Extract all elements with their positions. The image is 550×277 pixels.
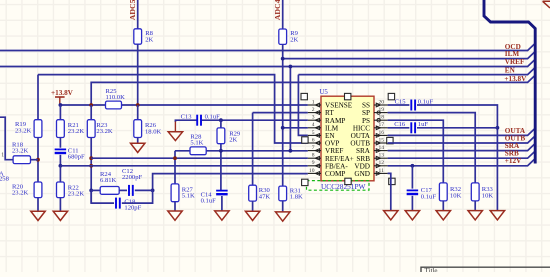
wire RAMP row bbox=[202, 119, 308, 121]
wire OUTA net bbox=[388, 128, 535, 135]
wire PS row bbox=[388, 120, 444, 183]
pin 5 EN bbox=[308, 130, 336, 140]
svg-text:4: 4 bbox=[312, 122, 315, 128]
wire C15 to HICC column bbox=[417, 105, 497, 211]
label R29 2K bbox=[229, 130, 241, 143]
pin 12 VDD bbox=[354, 160, 387, 170]
wire R9/ILM column down to pin 4 and R31 bbox=[282, 44, 284, 186]
wire OCD net bbox=[0, 44, 535, 51]
svg-text:20: 20 bbox=[379, 99, 385, 105]
wire RT row bbox=[253, 112, 308, 114]
svg-text:Title: Title bbox=[425, 267, 438, 272]
label C11 680pF bbox=[68, 147, 85, 160]
wire ILM net bbox=[283, 52, 535, 59]
bus vertical right edge bbox=[484, 0, 535, 164]
capacitor C15 bbox=[411, 100, 415, 111]
svg-text:GND: GND bbox=[354, 170, 370, 178]
resistor R23 bbox=[87, 120, 95, 138]
svg-text:C15: C15 bbox=[395, 98, 407, 105]
pin 10 COMP bbox=[308, 168, 346, 178]
ground under R32 bbox=[436, 211, 450, 220]
wire C18 loop bbox=[91, 190, 114, 203]
svg-text:+13.8V: +13.8V bbox=[504, 75, 527, 83]
wire +13.8V rail bbox=[91, 75, 535, 105]
label C13 0.1uF bbox=[181, 114, 221, 121]
resistor R21 bbox=[57, 120, 65, 138]
label C12 2200pF bbox=[122, 168, 142, 181]
junction ADC5/R26 on VSENSE row bbox=[136, 103, 140, 107]
svg-text:10K: 10K bbox=[482, 192, 494, 199]
junction VREF pin row bbox=[289, 149, 293, 153]
capacitor C12 bbox=[129, 185, 133, 196]
label C17 0.1uF bbox=[421, 187, 437, 200]
label C14 0.1uF bbox=[201, 191, 217, 204]
junction left end of R24 row bbox=[89, 189, 93, 193]
wire R24/C12 row bbox=[91, 189, 100, 191]
pin 4 ILM bbox=[308, 122, 339, 132]
pin 17 HICC bbox=[353, 122, 388, 132]
svg-text:UCC28251PW: UCC28251PW bbox=[321, 183, 366, 191]
svg-text:10: 10 bbox=[309, 168, 315, 174]
wire R26 to ground bbox=[137, 138, 139, 144]
svg-text:2K: 2K bbox=[290, 36, 298, 43]
wire RT column to R30 bbox=[252, 113, 254, 186]
svg-text:C16: C16 bbox=[394, 121, 406, 128]
wire R18 junction segment bbox=[31, 159, 39, 161]
svg-text:1: 1 bbox=[312, 99, 315, 105]
wire R29 column bbox=[220, 120, 222, 190]
wire +12V to C17 bbox=[411, 166, 413, 189]
resistor R32 bbox=[439, 183, 447, 201]
wire R23 down to compensation network bbox=[90, 138, 92, 204]
resistor R27 bbox=[171, 184, 179, 202]
junction ILM pin 4 bbox=[281, 126, 285, 130]
ground under GND pin bbox=[384, 211, 398, 220]
label R8 2K bbox=[145, 30, 153, 43]
svg-text:0.1uF: 0.1uF bbox=[421, 193, 437, 200]
wire SS row to C15 bbox=[388, 104, 410, 106]
svg-text:16: 16 bbox=[379, 130, 385, 136]
resistor R18 bbox=[13, 156, 30, 164]
svg-text:5.1K: 5.1K bbox=[190, 140, 203, 147]
pin 6 OVP bbox=[308, 137, 340, 147]
pin 1 VSENSE bbox=[308, 99, 353, 109]
label R20 23.2K bbox=[12, 183, 29, 196]
junction comp network right bbox=[151, 189, 155, 193]
ground under R26 bbox=[131, 143, 145, 152]
label C15 0.1uF bbox=[395, 98, 434, 105]
capacitor C13 bbox=[197, 115, 201, 126]
label R23 23.2K bbox=[96, 122, 113, 135]
ground under R31 bbox=[276, 212, 290, 221]
wire ADC4 column bbox=[282, 0, 284, 29]
label C18 120pF bbox=[124, 198, 141, 211]
label R25 110.0K bbox=[106, 88, 126, 101]
label R33 10K bbox=[482, 186, 494, 199]
junction ILM row start bbox=[281, 57, 285, 61]
svg-text:14: 14 bbox=[379, 145, 385, 151]
svg-text:C13: C13 bbox=[181, 114, 193, 121]
svg-text:23.2K: 23.2K bbox=[68, 191, 85, 198]
svg-text:6.81K: 6.81K bbox=[100, 177, 117, 184]
svg-text:2200pF: 2200pF bbox=[122, 174, 142, 181]
wire +12V net bbox=[388, 159, 535, 166]
wire GND pin to ground bbox=[388, 173, 391, 210]
svg-text:47K: 47K bbox=[259, 193, 271, 200]
ground under R22 bbox=[53, 211, 67, 220]
svg-text:120pF: 120pF bbox=[124, 205, 141, 212]
wire C13 to ground bbox=[175, 120, 196, 122]
svg-text:ADC5: ADC5 bbox=[128, 0, 137, 20]
junction R23 on FB/EA- row bbox=[89, 164, 93, 168]
marker square near pin 6 bbox=[302, 137, 308, 143]
svg-text:+12V: +12V bbox=[505, 157, 522, 165]
ground under HICC column bbox=[490, 211, 504, 220]
wire EN net left segment to OVP pin bbox=[38, 75, 308, 143]
label R24 6.81K bbox=[100, 171, 117, 184]
ground under R30 bbox=[245, 211, 259, 220]
svg-text:23.2K: 23.2K bbox=[68, 128, 85, 135]
resistor R19 bbox=[15, 120, 42, 138]
pin 20 SS bbox=[362, 99, 388, 109]
svg-text:2K: 2K bbox=[229, 137, 237, 144]
wire VREF net bbox=[0, 60, 535, 67]
svg-text:3: 3 bbox=[312, 115, 315, 121]
resistor R8 bbox=[134, 29, 142, 44]
svg-text:0.1uF: 0.1uF bbox=[205, 114, 221, 121]
wire EN net right segment bbox=[298, 68, 535, 75]
label R31 1.8K bbox=[290, 188, 303, 201]
marker square bottom of U5 bbox=[345, 178, 351, 184]
label R30 47K bbox=[259, 187, 271, 200]
ground under C17 bbox=[405, 211, 419, 220]
marker square near pin 1 bbox=[301, 93, 307, 99]
svg-text:23.2K: 23.2K bbox=[12, 190, 29, 197]
svg-text:13: 13 bbox=[379, 153, 385, 159]
wire C18 loop right bbox=[122, 190, 153, 203]
pin 15 OUTB bbox=[350, 137, 387, 147]
junction C11/R22 on FB row bbox=[59, 164, 63, 168]
resistor R24 bbox=[100, 187, 119, 195]
resistor R30 bbox=[249, 185, 257, 201]
label R9 2K bbox=[290, 30, 298, 43]
wire EN vertical to EN pin 5 bbox=[298, 75, 307, 136]
junction R18-R19-R20 bbox=[36, 158, 40, 162]
junction HICC/C15 column bbox=[496, 126, 500, 130]
resistor R31 bbox=[279, 186, 287, 201]
label R27 5.1K bbox=[182, 187, 195, 200]
svg-text:23.2K: 23.2K bbox=[15, 127, 32, 134]
svg-text:1.8K: 1.8K bbox=[290, 194, 303, 201]
svg-text:23.2K: 23.2K bbox=[12, 148, 29, 155]
label R26 18.0K bbox=[145, 122, 162, 135]
power symbol fragment top right corner bbox=[543, 1, 550, 8]
wire OUTB net bbox=[388, 136, 535, 143]
wire VREF/R28 row bbox=[175, 67, 290, 151]
label R22 23.2K bbox=[68, 184, 85, 197]
pin 9 FB/EA- bbox=[308, 160, 349, 170]
wire R22 to ground bbox=[59, 198, 61, 212]
wire VREF pin 7 segment bbox=[290, 150, 307, 152]
label UCC28251PW with selection box bbox=[307, 181, 370, 191]
wire R21 to C11 bbox=[59, 138, 61, 148]
wire R27 to ground bbox=[174, 202, 176, 211]
svg-text:23.2K: 23.2K bbox=[96, 128, 113, 135]
wire op-amp output to R18 bbox=[0, 117, 13, 160]
marker square near pin 20 bbox=[388, 93, 394, 99]
junction R27 on REF/EA+ row bbox=[173, 156, 177, 160]
label R32 10K bbox=[450, 186, 462, 199]
capacitor C16 bbox=[411, 122, 415, 133]
label R18 23.2K bbox=[12, 141, 29, 154]
junction VREF column top bbox=[289, 65, 293, 69]
resistor R20 bbox=[34, 182, 42, 198]
pin 18 PS bbox=[362, 115, 388, 125]
wire ILM pin 4 row bbox=[283, 127, 308, 129]
marker square near pin 10 bbox=[302, 179, 308, 185]
svg-text:2: 2 bbox=[312, 107, 315, 113]
junction R29/R28 row bbox=[219, 149, 223, 153]
pin 16 OUTA bbox=[351, 130, 388, 140]
wire COMP row bbox=[153, 174, 308, 191]
svg-text:9: 9 bbox=[312, 160, 315, 166]
pin 14 SRA bbox=[356, 145, 388, 155]
wire R23 column top bbox=[90, 105, 92, 120]
junction R23 on REF/EA+ row bbox=[89, 156, 93, 160]
resistor R22 bbox=[57, 182, 65, 198]
pin 7 VREF bbox=[308, 145, 344, 155]
ground under R20 bbox=[31, 211, 45, 220]
wire R31 to ground bbox=[282, 201, 284, 212]
wire ADC5 column bbox=[137, 0, 139, 29]
wire R8 to VSENSE row bbox=[137, 44, 139, 105]
label C16 1uF bbox=[394, 121, 428, 128]
resistor R28 bbox=[190, 147, 206, 155]
svg-text:19: 19 bbox=[379, 107, 385, 113]
pin 13 SRB bbox=[356, 153, 387, 163]
svg-text:15: 15 bbox=[379, 137, 385, 143]
svg-text:COMP: COMP bbox=[325, 170, 345, 178]
svg-text:5.1K: 5.1K bbox=[182, 193, 195, 200]
junction R23 riser on VSENSE row bbox=[89, 103, 93, 107]
wire R30 to ground bbox=[252, 201, 254, 211]
svg-text:8: 8 bbox=[312, 153, 315, 159]
wire R32 to ground bbox=[442, 201, 444, 211]
pin 3 RAMP bbox=[308, 115, 346, 125]
svg-text:2K: 2K bbox=[145, 36, 153, 43]
svg-text:VREF: VREF bbox=[505, 58, 525, 66]
power symbol +13.8V bbox=[51, 89, 74, 105]
wire EN corner down to R19 bbox=[37, 75, 39, 120]
resistor R25 bbox=[106, 101, 122, 109]
wire SRA net bbox=[388, 144, 535, 151]
capacitor C11 bbox=[55, 149, 67, 153]
marker square near pin 11 bbox=[389, 178, 395, 184]
label R21 23.2K bbox=[68, 122, 85, 135]
wire HICC row to C16 bbox=[388, 127, 410, 129]
svg-text:110.0K: 110.0K bbox=[106, 94, 126, 101]
marker square top of U5 bbox=[345, 93, 351, 99]
svg-text:10K: 10K bbox=[450, 192, 462, 199]
resistor R9 bbox=[279, 29, 287, 44]
op-amp U5 body bbox=[321, 96, 374, 181]
svg-text:U5: U5 bbox=[320, 89, 329, 96]
ground stem under C13 bbox=[174, 122, 176, 132]
wire C16 to columns bbox=[417, 127, 497, 129]
svg-text:ADC4: ADC4 bbox=[273, 0, 282, 20]
svg-text:ILM: ILM bbox=[505, 50, 520, 58]
svg-text:0.1uF: 0.1uF bbox=[201, 198, 217, 205]
marker square near pin 15 bbox=[387, 137, 393, 143]
wire R26 column bbox=[137, 105, 139, 120]
title block border bbox=[421, 267, 550, 272]
wire R33 to ground bbox=[474, 201, 476, 211]
resistor R29 bbox=[217, 128, 225, 144]
resistor R26 bbox=[134, 120, 142, 138]
wire R24 to C12 bbox=[119, 189, 127, 191]
junction C17 on +12V row bbox=[411, 164, 415, 168]
junction R29 top on RAMP row bbox=[219, 118, 223, 122]
wire junction to R22 bbox=[59, 166, 61, 182]
ground under C14 bbox=[215, 211, 229, 220]
pin 2 RT bbox=[308, 107, 335, 117]
svg-text:680pF: 680pF bbox=[68, 154, 85, 161]
svg-text:18: 18 bbox=[379, 115, 385, 121]
svg-text:5: 5 bbox=[312, 130, 315, 136]
ground under R33 bbox=[468, 211, 482, 220]
junction +13.8V feed bbox=[59, 103, 63, 107]
wire C11 to FB row bbox=[59, 155, 61, 166]
svg-text:6: 6 bbox=[312, 137, 315, 143]
svg-text:258: 258 bbox=[0, 176, 10, 183]
capacitor C14 bbox=[216, 191, 228, 195]
wire C17 to ground bbox=[411, 196, 413, 211]
wire SP row bbox=[388, 113, 476, 183]
wire R27 branch bbox=[174, 151, 176, 184]
svg-text:12: 12 bbox=[379, 160, 385, 166]
resistor R33 bbox=[471, 183, 479, 201]
label R28 5.1K bbox=[190, 134, 203, 147]
wire C14 to ground bbox=[221, 196, 223, 211]
wire SRB net bbox=[388, 151, 535, 158]
pin 19 SP bbox=[362, 107, 388, 117]
wire C12 to junction bbox=[135, 189, 153, 191]
wire R21 column bbox=[59, 105, 61, 120]
pin 8 REF/EA+ bbox=[308, 153, 354, 163]
ground under R27 bbox=[168, 211, 182, 220]
wire R20 to ground bbox=[37, 198, 39, 212]
svg-text:+13.8V: +13.8V bbox=[51, 89, 74, 97]
ground under C13 bbox=[168, 132, 182, 141]
wire VSENSE row (R25 row) bbox=[60, 104, 307, 106]
svg-text:EN: EN bbox=[505, 66, 516, 74]
wire FB/EA- row bbox=[60, 165, 307, 167]
svg-text:7: 7 bbox=[312, 145, 315, 151]
svg-text:17: 17 bbox=[379, 122, 385, 128]
svg-text:1: 1 bbox=[1, 152, 4, 158]
svg-text:11: 11 bbox=[379, 168, 385, 174]
svg-text:18.0K: 18.0K bbox=[145, 128, 162, 135]
wire R19 to R18/R20 junction bbox=[37, 138, 39, 183]
capacitor C18 bbox=[116, 198, 120, 209]
pin 11 GND bbox=[354, 168, 387, 178]
wire REF/EA+ row bbox=[91, 157, 308, 159]
capacitor C17 bbox=[407, 190, 419, 194]
